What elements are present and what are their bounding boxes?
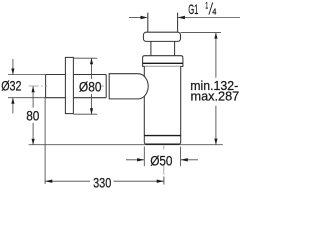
centerline trap axis — [163, 146, 165, 175]
dimension O32 extension lines — [8, 74, 46, 76]
union nut F2 — [143, 56, 183, 67]
svg-text:80: 80 — [26, 108, 39, 123]
compression nut — [109, 74, 148, 99]
svg-text:330: 330 — [93, 176, 111, 190]
arrow O50 right — [181, 158, 188, 161]
dimension O80 extension lines — [73, 57, 97, 59]
dimension 330 right tick — [163, 177, 165, 185]
svg-text:G1: G1 — [188, 2, 198, 17]
dimension 330 line — [45, 180, 90, 182]
arrow O50 left — [137, 158, 144, 161]
svg-text:Ø32: Ø32 — [1, 79, 21, 94]
centerline pipe axis — [29, 85, 104, 87]
dimension 80 line — [32, 86, 34, 107]
arrow 80 top — [32, 86, 35, 92]
arrow 80 bottom — [32, 139, 35, 145]
dimension O50 extension lines — [143, 147, 145, 167]
escutcheon — [65, 57, 73, 113]
dimension 330 extension line — [44, 98, 46, 184]
dimension O80 line — [91, 58, 93, 79]
arrow 330 left — [45, 180, 52, 183]
inlet pipe — [46, 74, 107, 76]
svg-text:max.287: max.287 — [191, 90, 240, 104]
arrow O32 top — [11, 69, 14, 75]
arrow O32 bottom — [11, 98, 14, 104]
dimension G1 1/4 leader — [129, 17, 141, 19]
bottom reference line — [29, 144, 223, 146]
dimension O50 arrow lines — [126, 159, 144, 161]
neck — [150, 41, 152, 55]
tailpipe — [147, 13, 149, 33]
dimension min-max line — [215, 33, 217, 78]
svg-text:Ø80: Ø80 — [79, 79, 102, 94]
arrow min-max bottom — [214, 139, 217, 145]
cup bottom edge — [146, 143, 180, 145]
arrow min-max top — [214, 33, 217, 39]
svg-text:1: 1 — [205, 0, 208, 10]
svg-text:Ø50: Ø50 — [150, 154, 172, 169]
dimension min-max extension line — [181, 32, 221, 34]
arrow O80 top — [90, 58, 93, 64]
arrow 330 right — [157, 180, 164, 183]
flange nut F1 — [143, 32, 180, 41]
dimension O32 arrow shafts — [12, 59, 14, 75]
trap body — [144, 66, 180, 144]
arrow G — [141, 16, 148, 19]
svg-text:4: 4 — [212, 6, 216, 16]
arrow O80 bottom — [90, 108, 93, 114]
cup ring line — [144, 135, 180, 137]
